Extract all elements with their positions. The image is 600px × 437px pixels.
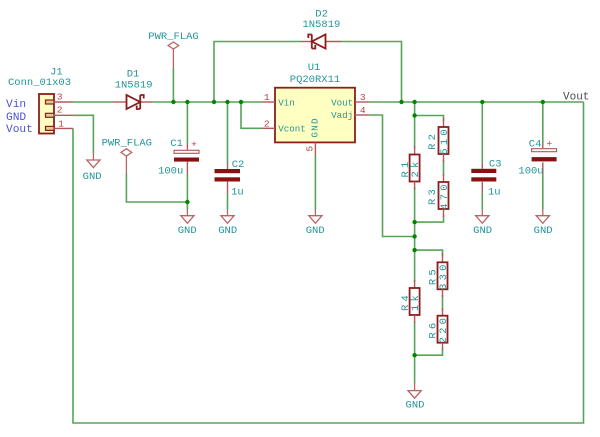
svg-text:Vout: Vout <box>6 124 33 136</box>
svg-text:1u: 1u <box>231 186 244 198</box>
svg-text:1u: 1u <box>488 187 501 199</box>
svg-text:C3: C3 <box>489 158 502 170</box>
svg-text:GND: GND <box>310 117 321 137</box>
svg-text:5: 5 <box>304 146 315 152</box>
svg-text:2k: 2k <box>410 158 422 177</box>
svg-text:510: 510 <box>439 126 451 155</box>
svg-text:GND: GND <box>473 225 492 237</box>
svg-text:Vin: Vin <box>278 97 295 108</box>
svg-text:1N5819: 1N5819 <box>302 19 340 31</box>
svg-text:+: + <box>191 139 197 150</box>
svg-text:GND: GND <box>534 225 553 237</box>
svg-text:R3: R3 <box>427 186 439 205</box>
svg-text:Vin: Vin <box>6 99 26 111</box>
svg-text:Vout: Vout <box>331 97 353 108</box>
svg-text:GND: GND <box>218 225 237 237</box>
svg-text:2: 2 <box>264 118 270 129</box>
svg-text:PQ20RX11: PQ20RX11 <box>290 74 340 86</box>
svg-text:GND: GND <box>178 225 197 237</box>
svg-text:PWR_FLAG: PWR_FLAG <box>148 31 198 43</box>
svg-text:4: 4 <box>360 105 366 116</box>
svg-text:GND: GND <box>306 225 325 237</box>
svg-text:R2: R2 <box>427 131 439 150</box>
svg-text:U1: U1 <box>308 62 321 74</box>
svg-text:C2: C2 <box>232 159 245 171</box>
svg-text:+: + <box>546 138 552 149</box>
svg-text:GND: GND <box>406 400 425 412</box>
svg-text:220: 220 <box>438 315 450 344</box>
svg-text:C1: C1 <box>170 138 183 150</box>
svg-text:2: 2 <box>57 105 63 116</box>
svg-text:GND: GND <box>83 171 102 183</box>
svg-text:PWR_FLAG: PWR_FLAG <box>102 138 152 150</box>
svg-text:3: 3 <box>360 92 366 103</box>
svg-text:D1: D1 <box>127 68 140 80</box>
svg-text:330: 330 <box>438 261 450 290</box>
svg-text:100u: 100u <box>518 165 543 177</box>
svg-text:3: 3 <box>57 92 63 103</box>
svg-text:Vcont: Vcont <box>278 124 306 135</box>
svg-text:Vout: Vout <box>563 91 589 103</box>
svg-text:1N5819: 1N5819 <box>115 80 153 92</box>
svg-text:C4: C4 <box>529 138 542 150</box>
svg-text:1: 1 <box>264 92 270 103</box>
svg-text:1: 1 <box>58 118 64 129</box>
svg-text:470: 470 <box>439 181 451 210</box>
svg-text:1k: 1k <box>410 292 422 311</box>
svg-text:100u: 100u <box>158 166 183 178</box>
svg-text:Vadj: Vadj <box>331 110 353 121</box>
svg-text:GND: GND <box>6 112 26 124</box>
svg-text:Conn_01x03: Conn_01x03 <box>8 77 71 89</box>
